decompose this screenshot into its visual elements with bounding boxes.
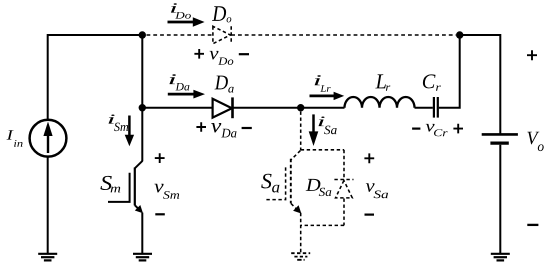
label i_Da	[169, 74, 189, 90]
current arrow i_Da	[168, 90, 205, 99]
label + (v_Sa)	[364, 153, 374, 163]
label V_o	[527, 132, 543, 151]
label S_m	[100, 176, 120, 192]
label C_r	[423, 74, 441, 90]
label v_Sa	[366, 183, 388, 198]
wire top-right horizontal	[460, 34, 501, 36]
label D_a	[215, 76, 234, 93]
wire mid horizontal right	[233, 107, 345, 109]
node B (mid-left junction)	[139, 104, 146, 111]
wire battery to ground	[499, 145, 501, 254]
label i_Sa	[319, 116, 337, 134]
label i_Do	[171, 3, 191, 18]
label I_in	[7, 130, 23, 147]
diode Da	[213, 97, 233, 118]
switch Sm (IGBT)	[108, 161, 143, 214]
wire top-left horizontal	[48, 34, 143, 36]
current arrow i_Lr	[310, 92, 345, 100]
ground Sa (dashed)	[291, 253, 310, 260]
switch Sa (dashed IGBT)	[266, 151, 301, 214]
label - (v_Sa)	[365, 214, 375, 216]
node A (top-left junction)	[139, 31, 146, 38]
current arrow i_Sa	[309, 114, 319, 146]
label i_Sm	[109, 114, 129, 131]
label + (Vo positive)	[527, 50, 537, 60]
label -v_Cr+	[412, 124, 463, 137]
label D_o	[212, 6, 231, 22]
node D (S_a junction)	[297, 104, 304, 111]
label - (v_Sm)	[155, 213, 165, 215]
wire switch Sm to ground	[141, 213, 143, 254]
wire top dashed right segment	[231, 34, 456, 36]
current arrow i_Sm	[125, 116, 134, 147]
diode DSa (dashed)	[334, 180, 353, 198]
wire top dashed left segment	[147, 34, 213, 36]
label v_Sm	[154, 184, 179, 199]
label i_Lr	[315, 75, 331, 92]
ground Sm	[133, 254, 152, 261]
wire dashed switch Sa to ground	[300, 213, 302, 253]
wire left vertical upper	[47, 34, 49, 120]
wire mid horizontal left	[142, 107, 212, 109]
node C (top-right junction)	[456, 31, 463, 38]
wire node B down to switch Sm	[141, 108, 143, 162]
diode Do (dashed)	[213, 26, 231, 43]
ground battery	[491, 254, 510, 261]
wire left vertical lower	[47, 157, 49, 254]
battery Vo	[482, 134, 518, 143]
inductor Lr	[345, 97, 415, 108]
label + (v_Sm)	[155, 153, 165, 163]
capacitor Cr	[434, 97, 438, 118]
label D_Sa	[306, 179, 332, 196]
label - (Vo negative)	[527, 224, 538, 226]
label L_r	[375, 74, 390, 90]
dashed box around D_Sa	[301, 150, 344, 226]
current arrow i_Do	[168, 17, 205, 26]
wire inductor to capacitor	[415, 107, 433, 109]
wire right vertical to battery	[499, 34, 501, 134]
wire dashed node D down to switch Sa	[300, 112, 302, 151]
label +v_Do-	[194, 49, 249, 65]
ground left	[38, 254, 57, 261]
label S_a	[261, 174, 279, 193]
wire capacitor to corner	[439, 35, 460, 109]
current source I_in	[30, 120, 67, 157]
wire vertical node A to node B	[141, 35, 143, 108]
label +v_Da-	[196, 122, 251, 137]
